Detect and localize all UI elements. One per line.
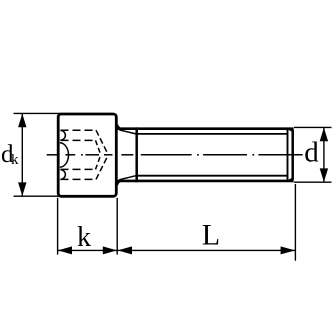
centerline dot 10 — [252, 154, 254, 156]
k/L shared extension line — [116, 198, 118, 255]
centerline dash 11 — [258, 154, 302, 156]
shaft major diameter top line — [117, 127, 294, 130]
thread run-out diagonal top — [119, 130, 136, 134]
socket cone inner V top — [96, 140, 101, 154]
svg-text:k: k — [77, 222, 91, 253]
socket cone outer V top — [96, 130, 108, 155]
hex socket hidden line inner top — [61, 139, 96, 141]
end face line — [291, 130, 294, 180]
k extension line left — [57, 198, 59, 255]
L arrow left — [118, 246, 133, 254]
hex socket hidden line outer bottom — [61, 178, 97, 180]
centerline dot 3 — [81, 154, 83, 156]
socket chamfer arc top — [60, 130, 65, 140]
socket cone outer V bottom — [96, 155, 108, 180]
k arrow right — [103, 246, 117, 254]
k arrow left — [58, 246, 72, 254]
dk arrow up — [18, 114, 26, 128]
dk arrow down — [18, 182, 26, 196]
hex socket hidden line inner bottom — [61, 168, 96, 170]
thread minor diameter top line — [137, 133, 288, 135]
d dimension line — [323, 127, 325, 182]
centerline dash 9 — [203, 154, 247, 156]
L arrow right — [281, 246, 296, 254]
centerline dash 6 — [121, 154, 133, 156]
dk dimension line — [21, 113, 23, 196]
d arrow up — [320, 128, 328, 142]
centerline dash 1 — [47, 154, 59, 156]
centerline dash 4 — [85, 154, 99, 156]
centerline dash 7 — [141, 154, 192, 156]
socket chamfer arc bottom — [60, 170, 65, 180]
centerline dot 8 — [197, 154, 199, 156]
d extension line bottom — [294, 181, 332, 183]
centerline dash 2 — [65, 154, 75, 156]
d extension line top — [294, 126, 332, 128]
d arrow down — [320, 168, 328, 182]
thread minor diameter bottom line — [137, 175, 288, 177]
svg-text:d: d — [304, 137, 319, 169]
L extension line right — [294, 184, 296, 261]
socket cone inner V bottom — [96, 155, 101, 170]
svg-text:L: L — [202, 219, 220, 252]
end chamfer circle line — [287, 129, 289, 181]
shaft major diameter bottom line — [117, 180, 294, 183]
under-head fillet bottom — [117, 181, 122, 185]
thread start vertical line — [135, 127, 138, 182]
centerline dash 5 — [104, 154, 113, 156]
svg-text:k: k — [11, 152, 19, 168]
hex socket hidden line outer top — [61, 129, 97, 131]
screw head outline — [58, 114, 116, 196]
k and L dimension line — [58, 249, 296, 251]
thread run-out diagonal bottom — [119, 176, 136, 180]
end chamfer corner bottom — [288, 178, 294, 181]
under-head fillet top — [117, 124, 122, 128]
dk extension line top — [14, 112, 62, 114]
end chamfer corner top — [288, 129, 294, 132]
dk extension line bottom — [14, 195, 62, 197]
socket chamfer arc middle — [60, 143, 69, 167]
